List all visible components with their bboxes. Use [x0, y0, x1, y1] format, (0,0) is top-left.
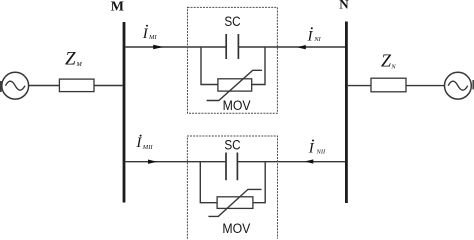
svg-text:MOV: MOV — [222, 221, 250, 236]
svg-text:I: I — [135, 135, 142, 151]
svg-text:MOV: MOV — [223, 98, 251, 113]
svg-text:I: I — [142, 26, 149, 42]
svg-text:N: N — [390, 63, 396, 70]
svg-text:SC: SC — [224, 138, 241, 153]
svg-text:I: I — [307, 28, 314, 44]
svg-text:M: M — [111, 0, 124, 15]
svg-text:N: N — [339, 0, 349, 12]
svg-text:M: M — [75, 61, 82, 68]
svg-text:MII: MII — [142, 144, 154, 151]
svg-text:NII: NII — [316, 149, 327, 156]
svg-text:NI: NI — [313, 36, 321, 43]
svg-text:I: I — [308, 141, 315, 157]
svg-text:MI: MI — [148, 34, 157, 41]
svg-text:Z: Z — [65, 48, 76, 69]
svg-text:SC: SC — [224, 14, 241, 29]
